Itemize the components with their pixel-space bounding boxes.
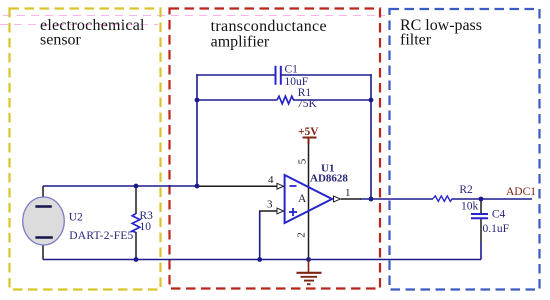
svg-text:10: 10 <box>140 221 152 233</box>
svg-text:sensor: sensor <box>40 32 82 49</box>
svg-text:3: 3 <box>267 199 273 211</box>
svg-text:5: 5 <box>297 158 309 164</box>
svg-text:2: 2 <box>296 232 308 238</box>
svg-text:C1: C1 <box>285 64 299 76</box>
svg-text:1: 1 <box>345 187 351 199</box>
svg-text:A: A <box>298 193 307 205</box>
svg-text:amplifier: amplifier <box>211 33 270 50</box>
svg-text:+5V: +5V <box>298 126 319 138</box>
svg-text:AD8628: AD8628 <box>310 173 348 185</box>
svg-text:U2: U2 <box>69 211 83 223</box>
svg-text:75K: 75K <box>297 98 318 110</box>
svg-text:C4: C4 <box>492 208 506 220</box>
svg-text:R2: R2 <box>459 184 473 196</box>
svg-text:10k: 10k <box>461 201 479 213</box>
svg-text:ADC1: ADC1 <box>506 186 536 198</box>
svg-text:0.1uF: 0.1uF <box>483 223 510 235</box>
svg-text:filter: filter <box>400 32 432 49</box>
svg-text:4: 4 <box>268 174 274 186</box>
svg-text:DART-2-FE5: DART-2-FE5 <box>69 230 133 242</box>
